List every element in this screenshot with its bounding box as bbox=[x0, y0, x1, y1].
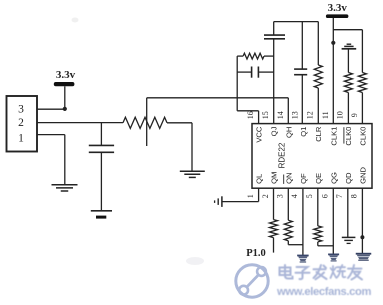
svg-text:CLK0: CLK0 bbox=[344, 127, 353, 146]
svg-text:QJ: QJ bbox=[270, 126, 279, 136]
svg-text:QD: QD bbox=[344, 172, 353, 184]
svg-text:4: 4 bbox=[290, 194, 299, 198]
svg-text:GND: GND bbox=[358, 167, 367, 184]
svg-text:QN: QN bbox=[284, 173, 293, 184]
svg-text:10: 10 bbox=[335, 111, 344, 119]
svg-text:VCC: VCC bbox=[255, 126, 264, 143]
svg-text:7: 7 bbox=[335, 194, 344, 198]
svg-text:QH: QH bbox=[284, 127, 293, 138]
svg-text:9: 9 bbox=[350, 113, 359, 117]
svg-text:QL: QL bbox=[255, 174, 264, 184]
svg-text:14: 14 bbox=[276, 111, 285, 119]
svg-text:QF: QF bbox=[299, 173, 308, 184]
svg-text:12: 12 bbox=[305, 111, 314, 119]
svg-text:3.3v: 3.3v bbox=[328, 2, 348, 14]
svg-text:11: 11 bbox=[321, 111, 330, 119]
svg-text:13: 13 bbox=[291, 111, 300, 119]
svg-text:QM: QM bbox=[270, 172, 279, 184]
svg-text:3.3v: 3.3v bbox=[56, 69, 76, 81]
svg-text:RDE22: RDE22 bbox=[278, 142, 287, 168]
svg-text:15: 15 bbox=[261, 111, 270, 119]
svg-text:3: 3 bbox=[276, 194, 285, 198]
svg-text:P1.0: P1.0 bbox=[246, 248, 266, 259]
svg-text:16: 16 bbox=[246, 111, 255, 119]
svg-text:Q1: Q1 bbox=[299, 127, 308, 137]
svg-text:2: 2 bbox=[18, 117, 24, 129]
svg-text:CLR: CLR bbox=[314, 126, 323, 142]
svg-text:2: 2 bbox=[261, 194, 270, 198]
svg-text:www.elecfans.com: www.elecfans.com bbox=[276, 286, 371, 298]
svg-text:QE: QE bbox=[314, 173, 323, 184]
svg-text:CLK0: CLK0 bbox=[358, 127, 367, 146]
svg-text:3: 3 bbox=[18, 104, 24, 116]
svg-text:6: 6 bbox=[321, 194, 330, 198]
svg-text:1: 1 bbox=[246, 194, 255, 198]
svg-text:1: 1 bbox=[18, 132, 24, 144]
svg-text:8: 8 bbox=[350, 194, 359, 198]
svg-text:5: 5 bbox=[305, 194, 314, 198]
svg-text:CLK1: CLK1 bbox=[329, 127, 338, 146]
svg-text:QG: QG bbox=[329, 172, 338, 184]
